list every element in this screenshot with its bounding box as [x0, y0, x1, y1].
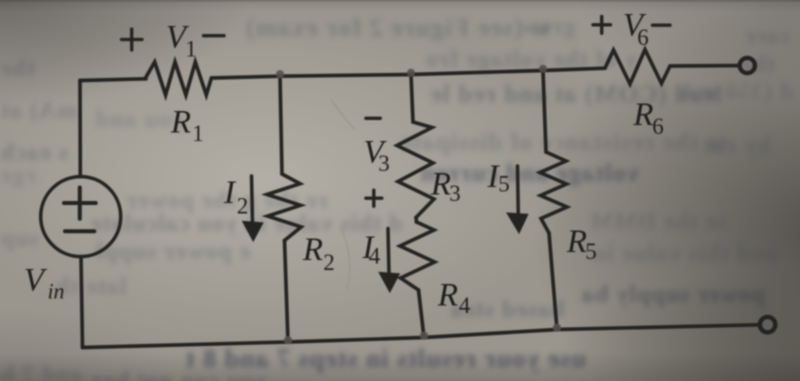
svg-text:6: 6	[637, 25, 649, 50]
svg-text:R: R	[437, 278, 458, 314]
node B junction dot	[407, 69, 415, 77]
svg-text:1: 1	[192, 121, 204, 146]
svg-text:V: V	[24, 263, 48, 299]
svg-text:5: 5	[585, 239, 597, 264]
label plus of V6	[593, 17, 611, 34]
svg-text:2: 2	[323, 250, 335, 275]
label minus of V1	[204, 34, 225, 37]
svg-text:3: 3	[378, 151, 390, 176]
arrowhead I2	[243, 222, 263, 241]
label minus of V6	[653, 24, 671, 27]
svg-text:2: 2	[237, 194, 249, 219]
svg-text:5: 5	[498, 172, 510, 197]
wire: R5 to bottom node F	[549, 233, 557, 330]
wire: R3 to R4	[414, 218, 418, 223]
node A junction dot	[276, 70, 284, 78]
voltage source plus sign	[64, 188, 96, 219]
wire: node B to node C	[411, 71, 543, 75]
wire: node C down to R5	[543, 71, 546, 153]
svg-text:R: R	[632, 97, 653, 133]
svg-text:4: 4	[369, 244, 381, 269]
voltage source Vin circle	[41, 177, 121, 257]
node E junction dot	[420, 332, 428, 340]
label plus of V3	[366, 190, 382, 206]
svg-text:in: in	[47, 279, 64, 304]
node D junction dot	[284, 336, 292, 344]
current arrow I5	[516, 166, 520, 215]
wire: bottom rail right	[424, 330, 557, 338]
resistor R6	[605, 50, 670, 85]
wire: node A down to R2	[280, 76, 282, 174]
wire: left rail source bottom	[81, 257, 83, 348]
terminal: top-right output	[740, 58, 755, 73]
wire: node C to R6	[543, 68, 605, 70]
wire: bottom rail to terminal	[557, 325, 759, 330]
terminal: bottom-right output	[760, 317, 775, 332]
resistor R1	[145, 62, 211, 95]
wire: R1 to node A	[211, 76, 280, 78]
wire: R6 to top-right terminal	[670, 64, 739, 68]
arrowhead I5	[508, 213, 528, 232]
resistor R3	[397, 122, 434, 218]
node C junction dot	[539, 65, 547, 73]
svg-text:R: R	[430, 167, 451, 203]
arrowhead I4	[380, 273, 400, 292]
resistor R5	[540, 152, 567, 233]
wire: R4 to bottom node E	[419, 290, 425, 338]
wire: node B down to R3	[411, 75, 413, 123]
label minus of V3	[366, 117, 380, 120]
resistor R4	[400, 222, 435, 290]
svg-text:R: R	[302, 232, 323, 268]
node F junction dot	[553, 324, 561, 332]
svg-text:R: R	[170, 105, 191, 141]
wire: bottom rail left	[83, 342, 289, 348]
svg-text:4: 4	[459, 293, 471, 318]
svg-text:R: R	[566, 224, 587, 260]
wire: bottom rail middle	[288, 338, 424, 343]
current arrow I4	[388, 229, 389, 275]
svg-text:3: 3	[449, 181, 461, 206]
wire: top rail from source to R1	[80, 79, 146, 81]
voltage source minus sign	[65, 229, 94, 233]
label plus of V1	[122, 29, 143, 50]
svg-text:I: I	[223, 175, 237, 211]
wire: node A to node B	[280, 75, 411, 77]
resistor R2	[267, 174, 301, 241]
current arrow I2	[252, 176, 253, 223]
wire: R2 to bottom node D	[285, 241, 289, 343]
svg-text:1: 1	[185, 37, 197, 62]
wire: left rail source top	[78, 81, 82, 177]
svg-text:6: 6	[652, 114, 664, 139]
